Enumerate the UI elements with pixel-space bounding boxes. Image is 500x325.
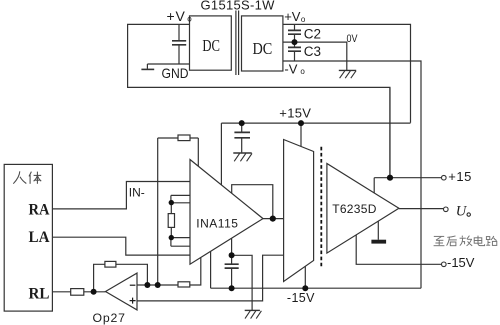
svg-text:-15V: -15V [287, 291, 315, 305]
svg-text:Op27: Op27 [93, 311, 126, 325]
svg-text:U: U [456, 204, 468, 220]
svg-text:G1515S-1W: G1515S-1W [201, 0, 276, 12]
svg-text:INA115: INA115 [196, 217, 238, 231]
svg-text:+V: +V [284, 9, 301, 24]
svg-text:o: o [300, 67, 305, 76]
svg-text:IN-: IN- [129, 185, 145, 199]
svg-text:C2: C2 [304, 27, 321, 42]
svg-text:C3: C3 [304, 44, 321, 59]
svg-text:o: o [301, 15, 306, 24]
svg-text:T6235D: T6235D [332, 202, 377, 216]
svg-text:LA: LA [29, 229, 50, 246]
svg-text:-15V: -15V [447, 255, 475, 270]
svg-text:+V: +V [167, 8, 186, 24]
svg-text:+15V: +15V [279, 105, 311, 120]
svg-text:GND: GND [162, 65, 189, 81]
svg-text:0V: 0V [347, 33, 359, 45]
svg-text:DC: DC [253, 39, 273, 58]
svg-text:RA: RA [29, 201, 50, 218]
svg-text:-V: -V [284, 62, 297, 77]
svg-text:RL: RL [29, 285, 50, 302]
svg-text:+15: +15 [448, 169, 472, 184]
svg-text:o: o [187, 15, 192, 24]
svg-text:DC: DC [202, 36, 220, 55]
